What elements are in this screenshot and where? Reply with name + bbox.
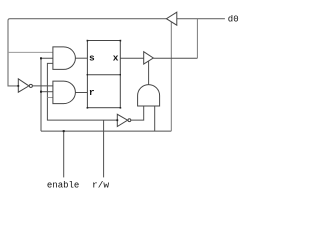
svg-text:s: s [89,53,95,64]
svg-text:x: x [113,53,119,64]
svg-text:r: r [89,87,95,98]
svg-text:r/w: r/w [92,179,109,190]
svg-text:d0: d0 [228,14,239,24]
svg-text:enable: enable [47,180,79,190]
